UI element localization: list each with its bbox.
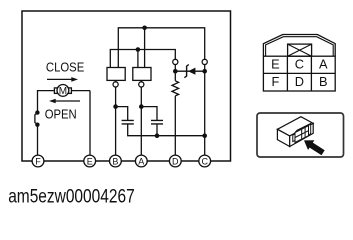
connector lock tab with X <box>288 44 312 56</box>
svg-text:D: D <box>295 74 304 89</box>
wire: K1 bottom stub <box>115 80 117 81</box>
junction dot: top bus / K2 <box>142 26 147 31</box>
wire: relay K2 top-right leg <box>144 28 146 68</box>
connector icon body right face <box>290 123 314 146</box>
svg-text:F: F <box>271 74 279 89</box>
svg-text:M: M <box>59 86 67 97</box>
contact circle right (to top bus) <box>202 59 207 64</box>
pinout grid <box>263 56 335 91</box>
contact circle below K1 <box>113 82 118 87</box>
wire: switch to terminal F <box>37 125 39 156</box>
relay K1 box <box>107 68 125 81</box>
wire: column to terminal A <box>140 87 142 156</box>
terminal D <box>169 155 181 167</box>
svg-text:D: D <box>172 156 179 166</box>
contact circle below K2 <box>139 82 144 87</box>
arrow open (left) <box>49 99 80 104</box>
zener diode ZD1 cathode bar <box>184 65 188 78</box>
capacitor C1 plates <box>122 120 134 124</box>
wire: resistor to terminal D <box>174 96 176 156</box>
svg-text:C: C <box>201 156 208 166</box>
wire: motor to terminal E <box>89 91 91 156</box>
wire: capacitor C2 branch <box>141 107 157 121</box>
motor M brushes <box>54 88 57 94</box>
wire: left contact down <box>174 65 176 81</box>
svg-text:C: C <box>295 57 304 72</box>
svg-text:E: E <box>271 57 280 72</box>
wire: second bus <box>110 50 175 68</box>
connector icon socket <box>293 123 311 142</box>
junction dot: zener right <box>202 69 207 74</box>
connector icon frame <box>257 113 344 157</box>
connector icon body left face <box>277 129 289 146</box>
resistor R1 zigzag <box>172 81 179 96</box>
svg-text:F: F <box>35 156 41 166</box>
junction dot on A column <box>139 104 144 109</box>
enclosure box (actuator outline) <box>22 11 231 161</box>
wire: capacitor C1 branch <box>116 107 128 121</box>
wire: motor loop top <box>38 91 91 113</box>
wire: zener link <box>175 70 204 72</box>
connector pinout housing inner roof <box>266 37 334 57</box>
junction dot on B column <box>113 104 118 109</box>
connector icon body top face <box>277 117 313 136</box>
svg-text:OPEN: OPEN <box>45 107 77 122</box>
switch SW1 blade <box>35 113 38 125</box>
wire: relay K2 top-left leg <box>137 50 139 68</box>
junction dot: common / C2 <box>155 133 160 138</box>
terminal B <box>110 155 122 167</box>
junction dot: zener left <box>173 69 178 74</box>
wire: C1 bottom to common <box>128 124 205 136</box>
switch SW1 contact dots <box>35 110 39 127</box>
svg-text:B: B <box>112 156 118 166</box>
svg-text:A: A <box>138 156 144 166</box>
wire: K2 bottom stub <box>140 80 142 81</box>
junction dot: common / C column <box>202 133 207 138</box>
arrow pointing at connector <box>304 140 325 155</box>
arrow close (right) <box>47 77 78 82</box>
junction dot: second bus / K2 <box>136 47 141 52</box>
connector pinout housing outer roof <box>263 35 335 57</box>
svg-text:E: E <box>87 156 93 166</box>
terminal C <box>199 155 211 167</box>
terminal A <box>135 155 147 167</box>
svg-text:B: B <box>319 74 328 89</box>
relay K2 box <box>133 68 151 81</box>
zener diode ZD1 triangle <box>188 68 195 75</box>
svg-text:CLOSE: CLOSE <box>46 60 85 75</box>
wire: top bus <box>118 28 204 68</box>
motor M body <box>57 85 69 97</box>
wire: C2 bottom stub <box>156 124 158 136</box>
svg-text:A: A <box>319 57 328 72</box>
terminal E <box>84 155 96 167</box>
capacitor C2 plates <box>151 120 163 124</box>
svg-text:am5ezw00004267: am5ezw00004267 <box>8 187 135 208</box>
contact circle left (to second bus) <box>173 59 178 64</box>
wire: right contact down / C column <box>204 65 206 156</box>
wire: column to terminal B <box>115 87 117 156</box>
terminal F <box>32 155 44 167</box>
